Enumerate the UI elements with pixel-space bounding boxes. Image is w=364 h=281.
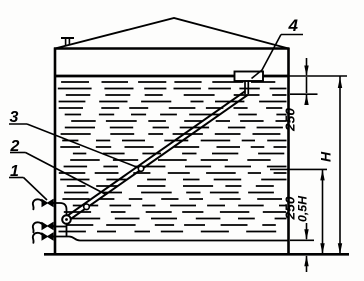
- surface level extension line: [289, 75, 347, 77]
- swing suction pipe (part 3): [67, 91, 248, 220]
- upper 250 dimension line with outside arrows: [306, 58, 308, 103]
- svg-text:250: 250: [284, 196, 298, 220]
- H dimension line: [339, 76, 341, 254]
- pipe joint ring (lower): [84, 204, 90, 210]
- svg-text:2: 2: [10, 138, 20, 155]
- valve V1 (top): [33, 199, 56, 209]
- top nozzle pipe with elbow to hinge: [52, 203, 67, 215]
- 0.5H level extension line: [270, 168, 327, 170]
- lower 250 reference tick: [290, 239, 314, 241]
- svg-text:4: 4: [288, 16, 299, 35]
- tank top edge: [54, 47, 289, 50]
- float (part 4): [235, 72, 264, 82]
- lower 250 dimension line with outside arrows: [306, 223, 308, 272]
- label 4 leader: [252, 35, 304, 79]
- label 2 leader: [10, 153, 106, 195]
- label 3 leader: [9, 124, 139, 168]
- float intake level extension line: [290, 93, 318, 95]
- label 1 leader: [9, 178, 47, 201]
- svg-text:H: H: [318, 151, 334, 162]
- tank left wall: [54, 48, 57, 255]
- roof vent pipe: [61, 38, 74, 46]
- liquid surface line: [55, 75, 289, 78]
- valve V2 (middle): [33, 222, 56, 232]
- svg-text:3: 3: [10, 109, 19, 126]
- tank bottom: [44, 253, 349, 256]
- 0.5H dimension line: [322, 169, 324, 254]
- liquid (dash fill): [58, 82, 287, 232]
- middle nozzle pipe: [52, 226, 67, 228]
- valve V3 (bottom): [33, 233, 56, 243]
- svg-text:250: 250: [284, 108, 298, 132]
- svg-text:0,5H: 0,5H: [298, 195, 310, 222]
- hinge joint (part 2): [62, 215, 71, 224]
- svg-text:1: 1: [10, 163, 19, 180]
- tank right wall: [287, 48, 290, 255]
- pipe joint ring (upper): [138, 166, 143, 171]
- riser from hinge to bottom pipe: [66, 224, 68, 237]
- bottom nozzle pipe with jog: [52, 237, 289, 241]
- conical roof: [55, 18, 289, 49]
- float suction riser: [245, 81, 248, 94]
